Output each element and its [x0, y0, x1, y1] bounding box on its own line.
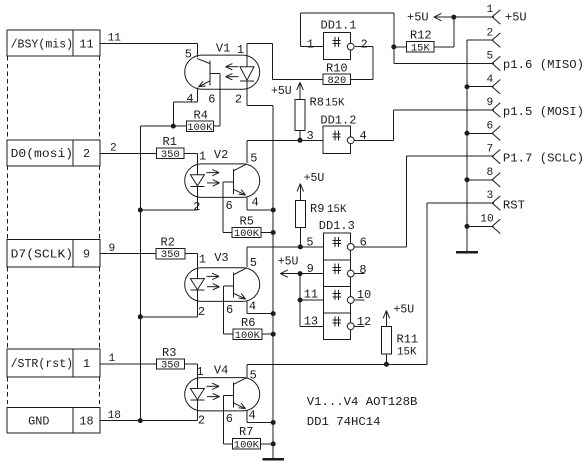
svg-text:100K: 100K — [234, 228, 260, 240]
svg-text:350: 350 — [161, 360, 180, 372]
svg-text:+5U: +5U — [304, 172, 325, 185]
svg-text:V1: V1 — [216, 42, 230, 56]
svg-text:10: 10 — [480, 213, 494, 225]
svg-text:5: 5 — [250, 368, 257, 382]
svg-text:R5: R5 — [240, 215, 254, 229]
svg-text:+5U: +5U — [278, 255, 299, 268]
svg-text:DD1 74HC14: DD1 74HC14 — [307, 415, 381, 429]
svg-text:2: 2 — [110, 142, 117, 154]
svg-text:6: 6 — [208, 93, 215, 107]
svg-text:1: 1 — [199, 253, 206, 267]
svg-text:5: 5 — [487, 51, 494, 63]
svg-text:DD1.3: DD1.3 — [319, 219, 355, 233]
svg-text:15K: 15K — [397, 347, 417, 359]
svg-text:R1: R1 — [163, 135, 177, 149]
svg-text:P1.7 (SCLC): P1.7 (SCLC) — [503, 152, 584, 166]
svg-text:R9: R9 — [310, 202, 324, 216]
svg-text:/BSY(mis): /BSY(mis) — [11, 37, 74, 51]
svg-text:V4: V4 — [214, 364, 228, 378]
svg-text:4: 4 — [487, 74, 494, 86]
svg-text:2: 2 — [198, 414, 205, 428]
svg-text:R10: R10 — [326, 62, 348, 76]
svg-text:DD1.2: DD1.2 — [320, 114, 356, 128]
svg-text:2: 2 — [83, 147, 90, 161]
svg-text:350: 350 — [161, 249, 180, 261]
svg-text:11: 11 — [79, 37, 93, 51]
svg-text:D0(mosi): D0(mosi) — [11, 147, 74, 161]
svg-text:9: 9 — [487, 97, 494, 109]
svg-text:V3: V3 — [214, 251, 228, 265]
svg-text:+5U: +5U — [505, 11, 527, 25]
svg-text:100K: 100K — [235, 330, 261, 342]
svg-text:DD1.1: DD1.1 — [321, 19, 357, 33]
svg-text:5: 5 — [306, 236, 313, 250]
svg-text:1: 1 — [199, 149, 206, 163]
svg-text:9: 9 — [83, 247, 90, 261]
svg-text:2: 2 — [198, 305, 205, 319]
svg-text:RST: RST — [503, 198, 525, 212]
svg-text:D7(SCLK): D7(SCLK) — [11, 247, 74, 261]
svg-text:/STR(rst): /STR(rst) — [11, 357, 74, 371]
svg-text:5: 5 — [250, 151, 257, 165]
svg-text:18: 18 — [108, 410, 121, 422]
svg-text:4: 4 — [360, 129, 367, 143]
svg-text:V1...V4 AOT128B: V1...V4 AOT128B — [307, 395, 418, 409]
svg-text:3: 3 — [307, 129, 314, 143]
svg-text:13: 13 — [304, 315, 318, 329]
svg-text:V2: V2 — [214, 148, 228, 162]
svg-text:15K: 15K — [411, 42, 431, 54]
svg-text:2: 2 — [361, 38, 368, 52]
svg-text:18: 18 — [79, 415, 93, 429]
svg-text:15K: 15K — [325, 98, 345, 110]
svg-text:+5U: +5U — [271, 85, 292, 98]
svg-text:1: 1 — [83, 357, 90, 371]
svg-text:15K: 15K — [327, 204, 347, 216]
svg-text:5: 5 — [250, 256, 257, 270]
svg-text:3: 3 — [487, 190, 494, 202]
svg-text:9: 9 — [307, 262, 314, 276]
svg-text:6: 6 — [487, 120, 494, 132]
svg-text:10: 10 — [357, 288, 371, 302]
svg-text:11: 11 — [304, 287, 318, 301]
svg-text:1: 1 — [109, 353, 116, 365]
svg-text:p1.5 (MOSI): p1.5 (MOSI) — [503, 105, 584, 119]
svg-text:11: 11 — [108, 33, 122, 45]
svg-text:R3: R3 — [162, 346, 176, 360]
svg-text:R7: R7 — [239, 425, 253, 439]
svg-text:+5U: +5U — [407, 11, 429, 25]
svg-text:350: 350 — [161, 149, 180, 161]
svg-text:p1.6 (MISO): p1.6 (MISO) — [503, 58, 584, 72]
svg-text:9: 9 — [109, 243, 116, 255]
svg-text:5: 5 — [185, 48, 192, 62]
svg-text:4: 4 — [249, 409, 256, 423]
svg-text:R2: R2 — [161, 236, 175, 250]
svg-text:R8: R8 — [310, 96, 324, 110]
svg-text:2: 2 — [487, 27, 494, 39]
svg-text:GND: GND — [28, 415, 49, 429]
svg-text:R11: R11 — [397, 333, 419, 347]
svg-text:R6: R6 — [241, 316, 255, 330]
svg-text:1: 1 — [237, 43, 244, 57]
svg-text:2: 2 — [235, 92, 242, 106]
svg-text:1: 1 — [307, 38, 314, 52]
svg-text:R12: R12 — [410, 29, 432, 43]
svg-text:8: 8 — [359, 263, 366, 277]
svg-text:6: 6 — [360, 236, 367, 250]
svg-text:6: 6 — [226, 412, 233, 426]
svg-text:12: 12 — [357, 315, 371, 329]
svg-text:1: 1 — [487, 4, 494, 16]
svg-text:6: 6 — [226, 303, 233, 317]
svg-text:7: 7 — [487, 144, 494, 156]
svg-text:100K: 100K — [234, 439, 260, 451]
svg-text:4: 4 — [186, 92, 193, 106]
svg-text:820: 820 — [327, 75, 346, 87]
svg-text:+5U: +5U — [394, 304, 415, 317]
svg-text:R4: R4 — [194, 109, 208, 123]
svg-text:8: 8 — [487, 167, 494, 179]
svg-text:4: 4 — [249, 300, 256, 314]
svg-text:6: 6 — [226, 199, 233, 213]
svg-text:4: 4 — [252, 196, 259, 210]
svg-text:100K: 100K — [187, 122, 213, 134]
